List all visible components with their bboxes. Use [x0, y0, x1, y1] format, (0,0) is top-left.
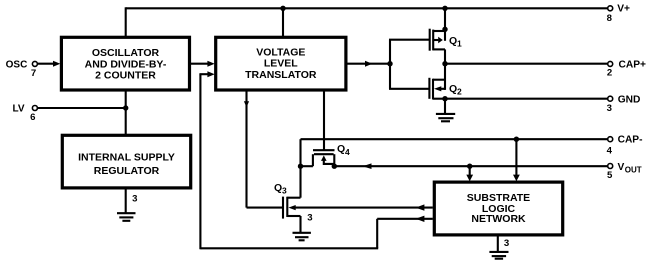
svg-text:5: 5	[607, 170, 613, 181]
transistor Q2	[429, 78, 462, 100]
svg-text:4: 4	[607, 145, 613, 156]
wire Q2 source vertical (body tie)	[444, 64, 446, 90]
junction dot gate drive node	[387, 61, 392, 66]
wire V+ rail down to Q1 source	[444, 7, 446, 41]
wire feedback bottom horizontal	[200, 247, 378, 249]
svg-text:Q: Q	[449, 83, 457, 95]
svg-text:CAP-: CAP-	[618, 135, 643, 146]
wire CAP- down to substrate logic network	[515, 139, 517, 175]
pin VOUT 5	[607, 162, 642, 181]
svg-text:2: 2	[607, 68, 612, 79]
svg-text:INTERNAL SUPPLY: INTERNAL SUPPLY	[78, 152, 175, 164]
pin CAP+ 2	[607, 60, 646, 79]
block voltage level translator	[216, 37, 346, 90]
svg-text:7: 7	[31, 68, 36, 79]
wire VOUT	[334, 165, 607, 167]
svg-text:OUT: OUT	[625, 165, 642, 174]
arrow into voltage level translator (lower)	[207, 71, 214, 77]
wire OSC to oscillator block	[37, 63, 53, 65]
wire box2 right output	[346, 63, 390, 65]
wire oscillator block to voltage level translator	[190, 63, 208, 65]
junction dot LV node	[123, 105, 128, 110]
wire CAP-	[301, 138, 608, 140]
pin CAP- 4	[607, 135, 643, 157]
svg-text:OSC: OSC	[6, 59, 28, 70]
junction dot CAP- to substrate	[514, 137, 519, 142]
arrow on feedback line 2	[416, 216, 425, 222]
ground Q3	[293, 233, 311, 241]
arrow on Q3 body line near substrate	[416, 204, 425, 210]
wire box1 top to V+ rail	[125, 7, 127, 37]
ground regulator	[117, 189, 136, 221]
arrow on VOUT wire (left)	[363, 163, 372, 169]
svg-text:V: V	[618, 162, 625, 173]
wire V+ rail down to box2 top	[282, 7, 284, 37]
wire feedback left vertical up	[199, 74, 201, 249]
block internal supply regulator	[62, 135, 190, 188]
junction dot Q1 source corner	[442, 27, 447, 32]
svg-text:3: 3	[607, 103, 612, 114]
svg-text:3: 3	[307, 213, 312, 224]
junction dot VOUT to substrate	[467, 164, 472, 169]
arrow into oscillator block	[53, 61, 60, 67]
wire gate bracket vertical	[389, 40, 391, 89]
junction dot Q2 source / GND	[442, 96, 447, 101]
wire feedback into box2	[199, 73, 208, 75]
wire LV to regulator node	[37, 107, 125, 109]
arrow into substrate (from CAP-)	[513, 175, 520, 182]
arrow on box2 output	[365, 61, 372, 67]
wire V+ rail	[126, 7, 608, 9]
wire box2 bottom-left vertical to Q3 gate	[245, 91, 247, 208]
junction dot CAP+ node	[442, 61, 447, 66]
svg-text:2 COUNTER: 2 COUNTER	[95, 70, 156, 82]
junction dot V+ rail / box2	[280, 6, 285, 11]
pin OSC 7	[6, 59, 38, 79]
junction dot CAP- / Q4 source / Q3 drain	[298, 164, 303, 169]
svg-text:NETWORK: NETWORK	[471, 213, 526, 225]
wire CAP- vertical to Q3 drain	[299, 139, 301, 198]
svg-text:LV: LV	[13, 103, 25, 114]
svg-text:2: 2	[457, 86, 462, 96]
svg-text:Q: Q	[449, 35, 457, 47]
wire GND	[445, 98, 608, 100]
svg-text:V+: V+	[617, 4, 630, 15]
svg-text:8: 8	[607, 13, 613, 24]
arrow into substrate (from VOUT)	[466, 175, 473, 182]
svg-text:GND: GND	[618, 94, 641, 105]
wire Q3 body to substrate logic network	[292, 207, 433, 209]
svg-text:AND DIVIDE-BY-: AND DIVIDE-BY-	[85, 58, 167, 70]
wire VOUT down to substrate logic network	[469, 166, 471, 175]
wire feedback vertical down	[376, 219, 378, 249]
svg-text:6: 6	[30, 112, 35, 123]
svg-text:Q: Q	[337, 143, 345, 155]
wire Q3 source stub down	[299, 216, 301, 232]
svg-text:REGULATOR: REGULATOR	[94, 165, 160, 177]
wire CAP+	[445, 63, 608, 65]
arrow into voltage level translator (upper)	[207, 61, 214, 67]
wire to Q1 gate	[389, 39, 430, 41]
transistor Q1	[430, 29, 462, 51]
svg-text:Q: Q	[274, 182, 282, 194]
svg-text:3: 3	[132, 193, 137, 204]
transistor Q4	[313, 143, 350, 166]
block substrate logic network	[434, 182, 562, 235]
svg-text:CAP+: CAP+	[619, 60, 647, 71]
ground substrate	[489, 235, 508, 259]
block oscillator and divide-by-2 counter	[61, 37, 189, 90]
svg-text:4: 4	[345, 147, 350, 157]
arrow down on Q3 gate drive	[244, 101, 249, 107]
svg-text:1: 1	[457, 38, 462, 48]
svg-text:3: 3	[504, 238, 509, 249]
junction dot V+ rail / Q1	[442, 6, 447, 11]
pin LV 6	[13, 103, 38, 122]
junction dot Q4 drain / VOUT	[332, 164, 337, 169]
wire Q1 drain to CAP+ node	[444, 49, 446, 64]
wire Q4 source to CAP- node	[301, 165, 313, 167]
svg-text:3: 3	[282, 186, 287, 196]
pin V+ 8	[607, 4, 630, 25]
pin GND 3	[607, 94, 641, 114]
wire substrate feedback line 2	[377, 218, 433, 220]
ground Q2 source	[436, 99, 455, 122]
wire box2 bottom to Q4 gate	[323, 91, 325, 151]
wire to Q3 gate	[247, 207, 283, 209]
wire oscillator block bottom to regulator	[125, 91, 127, 135]
wire to Q2 gate	[389, 88, 429, 90]
transistor Q3	[274, 182, 301, 219]
svg-text:TRANSLATOR: TRANSLATOR	[245, 69, 317, 81]
